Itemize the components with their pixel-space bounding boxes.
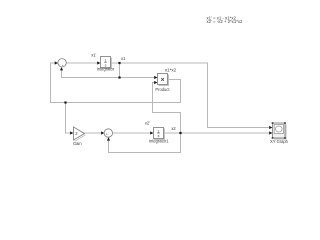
arrowhead into Gain (70, 131, 73, 134)
annotation equations text (207, 15, 244, 24)
svg-text:x1: x1 (121, 56, 126, 61)
junction dot4 (179, 132, 181, 134)
wire branch dot3 down to Gain input (66, 103, 71, 134)
svg-text:x1': x1' (91, 52, 96, 57)
wire Integrator1 out to dot4 then to XY in2 (164, 132, 271, 134)
arrowhead into Sum1 bottom input (107, 137, 110, 140)
wire dot2 right to Product in1 (120, 77, 156, 79)
sum block Sum1 (bottom) (104, 129, 112, 139)
svg-text:-: - (108, 135, 109, 139)
junction dot3 (64, 101, 66, 103)
svg-text:+: + (62, 64, 64, 68)
svg-text:Integrator1: Integrator1 (149, 139, 170, 144)
arrowhead into Integrator1 (150, 131, 153, 134)
junction dot2 (118, 76, 120, 78)
svg-text:s: s (158, 134, 160, 138)
wire Sum1 feedback loop below (109, 133, 181, 153)
product block (158, 74, 169, 86)
svg-text:x1*x2: x1*x2 (165, 68, 177, 73)
integrator block Integrator (101, 57, 112, 69)
gain block triangle (74, 127, 86, 141)
arrowhead into Sum bottom input (60, 67, 63, 70)
wire dot2 left and up to Sum bottom input (62, 70, 120, 77)
arrowhead into Product in1 (154, 76, 157, 79)
arrowhead into Sum1 left input (101, 131, 104, 134)
svg-text:x2: x2 (171, 126, 176, 131)
wire Sum to Integrator (66, 62, 97, 64)
junction dot1 (118, 62, 120, 64)
wire Gain out to Sum1 (85, 132, 102, 134)
arrowhead into Integrator (97, 61, 100, 64)
arrowhead into XY Graph in2 (269, 131, 272, 134)
wire Integrator out to dot1 then right, down, right to XY in1 (111, 63, 271, 128)
arrowhead into Product in2 (154, 81, 157, 84)
integrator block Integrator1 (154, 128, 165, 140)
svg-text:Product: Product (155, 87, 170, 92)
svg-text:x2' = -x2 + 2*x1*x2: x2' = -x2 + 2*x1*x2 (207, 19, 244, 24)
xy graph block (272, 122, 286, 139)
wire x2 dot4 up, left, up to Product in2 (153, 83, 181, 134)
wire Sum1 out to Integrator1 (113, 132, 151, 134)
wire Product out loop right, down, left, up to Sum left input (51, 63, 181, 103)
svg-text:Integrator: Integrator (97, 66, 115, 71)
sum block Sum (top) (58, 59, 66, 69)
svg-text:XY Graph: XY Graph (270, 139, 289, 144)
svg-text:x2': x2' (145, 120, 150, 125)
svg-text:Gain: Gain (73, 141, 82, 146)
arrowhead into Sum left input (55, 61, 58, 64)
wire dot1 down to dot2 (119, 63, 121, 78)
svg-text:-: - (59, 62, 60, 66)
arrowhead into XY Graph in1 (269, 126, 272, 129)
